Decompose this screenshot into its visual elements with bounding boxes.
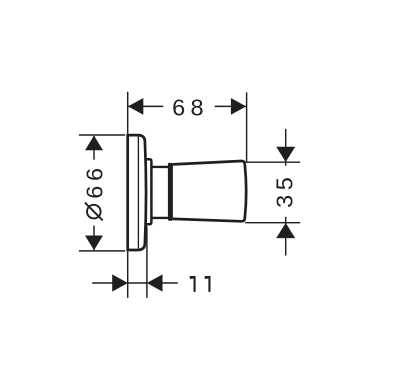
svg-text:6: 6 bbox=[172, 95, 185, 121]
svg-text:35: 35 bbox=[272, 173, 298, 208]
svg-text:8: 8 bbox=[191, 95, 204, 121]
svg-text:66: 66 bbox=[81, 163, 107, 198]
